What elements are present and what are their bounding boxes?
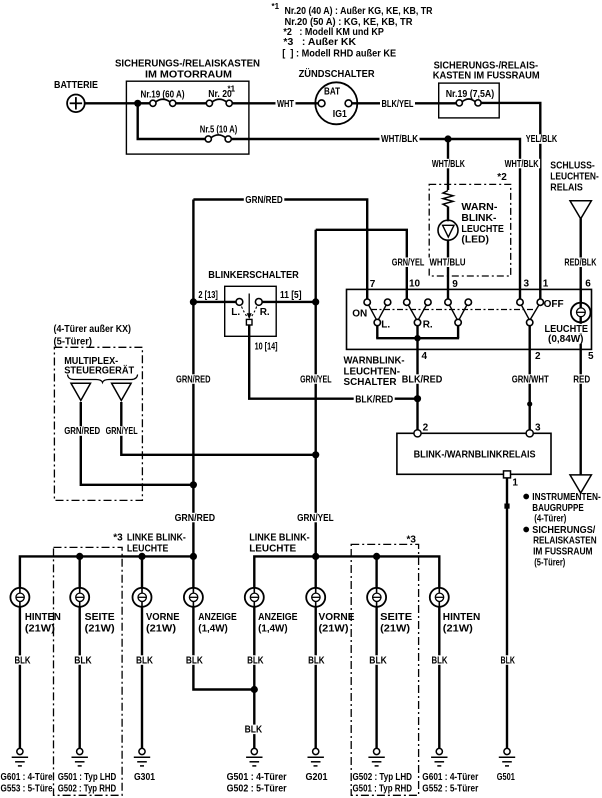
svg-text:G501 : Typ LHD: G501 : Typ LHD (58, 772, 116, 783)
svg-text:BLK: BLK (308, 655, 325, 666)
svg-text:SCHLUSS-: SCHLUSS- (550, 160, 595, 171)
wire GRN/YEL run from right riser to pin 10 (316, 230, 407, 299)
label WHT/BLU on pin 9 feed (428, 258, 467, 268)
svg-text:2: 2 (535, 351, 541, 362)
wire ignition IG1 to footwell fusebox (BLK/YEL) (352, 102, 457, 104)
svg-text:WARNBLINK-: WARNBLINK- (344, 355, 405, 366)
svg-text:6: 6 (585, 279, 591, 290)
wire turn-signal switch pin 11 to right riser (262, 301, 316, 303)
svg-text:G502 : 5-Türer: G502 : 5-Türer (227, 784, 287, 795)
svg-text:RELAISKASTEN: RELAISKASTEN (533, 536, 597, 547)
svg-text:BLK: BLK (186, 655, 204, 666)
svg-text:BLK/RED: BLK/RED (402, 374, 443, 385)
svg-text:1: 1 (543, 279, 549, 290)
svg-text:BLK: BLK (247, 655, 264, 666)
svg-text:IM FUSSRAUM: IM FUSSRAUM (533, 546, 593, 557)
svg-text:IM MOTORRAUM: IM MOTORRAUM (145, 70, 232, 81)
svg-text:BATTERIE: BATTERIE (54, 80, 98, 91)
svg-text:LINKE BLINK-: LINKE BLINK- (127, 532, 186, 543)
hazard switch pole 2 (pin10 R.) (404, 299, 410, 305)
svg-text:BLK: BLK (245, 725, 263, 736)
svg-text:G501 : 4-Türer: G501 : 4-Türer (227, 772, 287, 783)
svg-text:G601 : 4-Türer: G601 : 4-Türer (422, 772, 478, 783)
junction left bus / VORNE (138, 553, 145, 560)
svg-text:4: 4 (422, 351, 428, 362)
wire drop to SEITE lamp (right) (375, 556, 377, 587)
label GRN/RED on top run (244, 195, 284, 205)
svg-text:Nr.19 (7,5A): Nr.19 (7,5A) (446, 89, 495, 100)
label YEL/BLK (524, 134, 559, 144)
svg-text:VORNE: VORNE (146, 612, 180, 623)
svg-text:BLK: BLK (136, 655, 154, 666)
lamp SEITE right 21W (367, 588, 386, 607)
svg-text:RED/BLK: RED/BLK (564, 258, 597, 269)
wire ANZEIGE right lamp to ground (253, 607, 255, 749)
wire HINTEN left lamp to ground (19, 607, 21, 749)
svg-text:BAUGRUPPE: BAUGRUPPE (532, 503, 584, 514)
label GRN/WHT on pin 2 feed (510, 374, 550, 384)
svg-text:L.: L. (231, 307, 240, 318)
box *3 right (SEITE lamp option) dashed (351, 544, 418, 795)
wire flasher relay pin 1 down to ground G501 (506, 477, 508, 749)
svg-text:G502 : Typ LHD: G502 : Typ LHD (353, 772, 413, 783)
svg-text:ZÜNDSCHALTER: ZÜNDSCHALTER (299, 67, 376, 80)
wire RED hazard pin 5 down to arrow (580, 349, 582, 474)
hazard switch pole 3 (pin9) (445, 299, 451, 305)
label WHT (276, 99, 296, 109)
svg-text:RED: RED (573, 374, 590, 385)
bullet list destinations (523, 494, 529, 500)
svg-text:LINKE BLINK-: LINKE BLINK- (249, 532, 310, 543)
svg-text:ANZEIGE: ANZEIGE (258, 612, 298, 623)
lamp VORNE right 21W (306, 588, 325, 607)
ground G601/G552 (431, 748, 447, 766)
svg-text:BLK: BLK (74, 655, 92, 666)
box MULTIPLEX-STEUERGERAET dashed (54, 347, 142, 500)
battery symbol (67, 95, 85, 113)
svg-text:G501 : Typ RHD: G501 : Typ RHD (353, 784, 413, 795)
lamp VORNE left 21W (133, 588, 152, 607)
wire multiplex GRN/YEL output to right riser (121, 402, 315, 455)
fuse terminal circles Nr.5 (205, 136, 211, 142)
svg-text:WHT/BLK: WHT/BLK (505, 159, 540, 170)
svg-text:(21W): (21W) (25, 623, 55, 634)
arrow SCHLUSS-LEUCHTEN-RELAIS (570, 201, 591, 219)
label GRN/RED multiplex output (63, 426, 102, 436)
junction right bus / SEITE (373, 553, 380, 560)
svg-text:Nr.5 (10 A): Nr.5 (10 A) (200, 125, 238, 136)
svg-text:RELAIS: RELAIS (550, 183, 583, 194)
svg-text:*3 : Außer KK: *3 : Außer KK (283, 37, 356, 48)
junction hazard internal bus to pin 4 (414, 335, 420, 341)
wire VORNE right lamp to ground (315, 607, 317, 749)
splice on flasher relay pin 1 wire (504, 504, 509, 509)
label GRN/YEL lower riser (296, 513, 336, 523)
box BLINKERSCHALTER (225, 286, 277, 336)
wire battery to fusebox junction (85, 102, 138, 104)
svg-text:WARN-: WARN- (461, 202, 497, 213)
wire RED/BLK from tail-light relay arrow to pin 6 (580, 219, 582, 305)
wire multiplex GRN/RED output to left riser (81, 402, 194, 485)
svg-text:3: 3 (524, 279, 530, 290)
lamp HINTEN right 21W (430, 588, 449, 607)
box SICHERUNGS-/RELAISKASTEN IM FUSSRAUM (439, 83, 500, 118)
turn signal switch lever with arrow (248, 294, 250, 315)
svg-text:SICHERUNGS/: SICHERUNGS/ (532, 525, 595, 536)
svg-text:(LED): (LED) (461, 234, 489, 245)
svg-text:[ ] : Modell RHD außer KE: [ ] : Modell RHD außer KE (282, 49, 396, 60)
svg-text:(0,84W): (0,84W) (548, 334, 584, 345)
svg-text:GRN/YEL: GRN/YEL (300, 374, 332, 385)
multiplex arrow 1 (GRN/RED) (71, 383, 91, 400)
flasher relay pin 2 contact (414, 430, 421, 437)
fuse Nr.5 (10A) bump (211, 135, 226, 138)
wire hazard pin 4 down to flasher relay pin 2 (416, 349, 418, 430)
svg-text:SEITE: SEITE (85, 612, 115, 623)
svg-text:*3: *3 (113, 532, 123, 543)
ground G301 (134, 748, 150, 766)
fuse terminal circles Nr.19 7,5A (456, 100, 462, 106)
svg-text:BLK: BLK (369, 655, 387, 666)
svg-text:GRN/RED: GRN/RED (175, 513, 216, 524)
svg-text:BLK/RED: BLK/RED (355, 395, 393, 406)
wire GRN/RED top run from left riser to pin 7 (193, 200, 367, 300)
ground G502/G501 RHD (368, 748, 384, 766)
svg-text:(21W): (21W) (85, 623, 115, 634)
svg-text:G601 : 4-Türe: G601 : 4-Türe (1, 772, 53, 783)
wire drop to SEITE lamp (left) (78, 556, 80, 587)
lamp ANZEIGE left 1,4W (184, 588, 203, 607)
svg-text:11 [5]: 11 [5] (280, 290, 302, 301)
wire WHT/BLK drop to LED resistor (447, 139, 449, 190)
svg-text:(4-Türer außer KX): (4-Türer außer KX) (54, 324, 132, 335)
box SICHERUNGS-/RELAISKASTEN IM MOTORRAUM (126, 81, 248, 154)
wire fuse Nr.19 row to ignition switch (WHT) (141, 102, 150, 104)
box *3 left (SEITE lamp option) dashed (54, 547, 123, 795)
wire left lamp bus (20, 556, 194, 587)
ignition switch ZUENDSCHALTER circle (315, 82, 357, 124)
ground G501 relay (499, 748, 515, 766)
svg-text:G301: G301 (134, 772, 155, 783)
svg-text:10: 10 (409, 279, 421, 290)
svg-text:INSTRUMENTEN-: INSTRUMENTEN- (532, 492, 601, 503)
svg-text:BAT: BAT (324, 87, 340, 98)
svg-text:GRN/WHT: GRN/WHT (512, 374, 549, 385)
wire SEITE left lamp to ground (78, 607, 80, 749)
label WHT/BLK on horizontal (380, 134, 420, 144)
svg-text:WHT/BLU: WHT/BLU (430, 258, 466, 269)
wire VORNE left lamp to ground (141, 607, 143, 749)
svg-text:9: 9 (452, 279, 458, 290)
label WHT/BLK on pin 3 feed (503, 159, 540, 169)
svg-text:*3: *3 (407, 534, 417, 545)
label RED on pin 5 feed (572, 374, 592, 384)
svg-text:Nr.19 (60 A): Nr.19 (60 A) (141, 90, 185, 101)
svg-text:10 [14]: 10 [14] (255, 341, 278, 352)
svg-text:G552 : 5-Türer: G552 : 5-Türer (422, 784, 478, 795)
svg-text:ON: ON (352, 309, 367, 320)
svg-text:1: 1 (512, 477, 518, 488)
svg-text:BLINK-: BLINK- (461, 213, 496, 224)
svg-text:7: 7 (370, 279, 376, 290)
svg-text:(4-Türer): (4-Türer) (534, 513, 566, 524)
wire drop to VORNE lamp (left) (141, 556, 143, 587)
fuse Nr.19 (7,5A) bump (462, 99, 475, 102)
svg-text:L.: L. (381, 320, 390, 331)
wire YEL/BLK from footwell fuse to pin 1 of hazard switch (481, 103, 540, 299)
wire GRN/RED left riser down to ANZEIGE lamp (192, 200, 194, 588)
box WARN-BLINK-LEUCHTE (LED) dashed (429, 184, 511, 276)
fuse Nr.19 (60A) bump (156, 99, 171, 102)
svg-text:*1: *1 (272, 2, 280, 11)
label GRN/RED on left riser (175, 374, 213, 384)
label GRN/YEL on right riser (299, 374, 334, 384)
box WARNBLINK-LEUCHTEN-SCHALTER (347, 289, 592, 349)
box BLINK-/WARNBLINKRELAIS (397, 433, 551, 474)
svg-text:(21W): (21W) (443, 623, 473, 634)
svg-text:(1,4W): (1,4W) (258, 623, 288, 634)
hazard switch pole 1 (pin7 ON L.) (364, 299, 370, 305)
svg-text:STEUERGERÄT: STEUERGERÄT (64, 363, 134, 376)
wire SEITE right lamp to ground (375, 607, 377, 749)
label BLK/RED on horizontal link (354, 395, 395, 405)
svg-text:BLK: BLK (15, 655, 32, 666)
svg-text:(5-Türer): (5-Türer) (534, 558, 565, 569)
wire right lamp bus (254, 556, 439, 587)
svg-text:(21W): (21W) (380, 623, 410, 634)
svg-text:2 [13]: 2 [13] (198, 290, 218, 301)
svg-text:2: 2 (423, 423, 429, 434)
svg-text:VORNE: VORNE (319, 612, 355, 623)
svg-text:WHT: WHT (277, 99, 294, 110)
ground G501/G502 LHD (72, 748, 88, 766)
svg-text:LEUCHTEN-: LEUCHTEN- (550, 171, 599, 182)
label GRN/YEL multiplex output (104, 426, 139, 436)
junction left bus / GRN/RED riser (190, 553, 197, 560)
ground G501/G502 indicators (246, 748, 262, 766)
junction left riser / turn signal switch pin 2 (190, 298, 197, 305)
LED symbol (438, 220, 458, 240)
junction right bus / GRN/YEL riser (312, 553, 319, 560)
svg-text:(21W): (21W) (146, 623, 176, 634)
lamp ANZEIGE right 1,4W (245, 588, 264, 607)
fuse Nr.20 bump (212, 99, 227, 102)
svg-text:GRN/YEL: GRN/YEL (106, 426, 138, 437)
flasher relay pin 3 contact (526, 430, 533, 437)
hazard switch gang dash-dot line (371, 309, 534, 311)
BLK wire labels (13, 655, 32, 665)
svg-text:SEITE: SEITE (380, 612, 412, 623)
label GRN/YEL on pin 10 feed (390, 258, 426, 268)
wire resistor to LED (447, 207, 449, 222)
label BLK/YEL (380, 99, 415, 109)
svg-text:G201: G201 (306, 772, 328, 783)
wire GRN/YEL right riser down to VORNE lamp (315, 230, 317, 588)
svg-text:Nr.20 (40 A) : Außer KG, KE, K: Nr.20 (40 A) : Außer KG, KE, KB, TR (285, 6, 434, 17)
svg-text:KASTEN IM FUSSRAUM: KASTEN IM FUSSRAUM (433, 70, 540, 81)
svg-text:(5-Türer): (5-Türer) (54, 337, 93, 348)
hazard switch pilot lamp LEUCHTE 0,84W (571, 303, 591, 323)
lamp SEITE left 21W (70, 588, 89, 607)
svg-text:5: 5 (588, 351, 594, 362)
junction WHT/BLK to LED module (444, 135, 451, 142)
wire HINTEN right lamp to ground (438, 607, 440, 749)
flasher relay pin 1 contact (504, 471, 511, 478)
svg-text:BLK/YEL: BLK/YEL (382, 99, 414, 110)
wire junction drop to fuse Nr.5 row (138, 103, 206, 139)
fuse terminal circles Nr.19 60A (150, 100, 156, 106)
ground G201 (308, 748, 324, 766)
svg-text:LEUCHTE: LEUCHTE (249, 543, 296, 554)
hazard switch pole 4 (pin3 pin1 OFF) (517, 299, 523, 305)
wire BLK/RED from turn-signal switch pin 10 to hazard pin 4 line (249, 325, 417, 399)
junction left bus / SEITE (76, 553, 83, 560)
svg-text:BLINKERSCHALTER: BLINKERSCHALTER (208, 270, 299, 281)
svg-text:LEUCHTE: LEUCHTE (127, 544, 169, 555)
svg-text:(1,4W): (1,4W) (198, 623, 228, 634)
svg-text:R.: R. (423, 320, 433, 331)
multiplex arrow 2 (GRN/YEL) (112, 383, 132, 400)
svg-text:YEL/BLK: YEL/BLK (526, 134, 558, 145)
svg-text:GRN/YEL: GRN/YEL (392, 258, 425, 269)
svg-text:G553 : 5-Türe: G553 : 5-Türe (1, 784, 53, 795)
junction BLK/RED with hazard pin 4 wire (414, 395, 421, 402)
svg-text:GRN/RED: GRN/RED (176, 374, 211, 385)
svg-text:ANZEIGE: ANZEIGE (198, 612, 237, 623)
svg-text:*1: *1 (228, 85, 236, 94)
junction multiplex GRN/RED to left riser (190, 481, 197, 488)
arrow to instrument cluster / footwell box (570, 475, 591, 493)
lamp HINTEN left 21W (10, 588, 29, 607)
svg-text:SICHERUNGS-/RELAISKASTEN: SICHERUNGS-/RELAISKASTEN (115, 59, 260, 70)
svg-text:GRN/RED: GRN/RED (245, 195, 282, 206)
svg-text:LEUCHTEN-: LEUCHTEN- (344, 366, 401, 377)
svg-text:HINTEN: HINTEN (443, 612, 481, 623)
wire left riser to turn-signal switch pin 2 (193, 301, 236, 303)
svg-text:*2: *2 (497, 172, 507, 183)
svg-text:BLK: BLK (432, 655, 449, 666)
wire WHT/BLK from fuse Nr.5 to pin 3 of hazard switch (231, 139, 520, 299)
svg-text:(21W): (21W) (319, 623, 349, 634)
svg-text:GRN/YEL: GRN/YEL (297, 513, 334, 524)
svg-text:G501: G501 (497, 772, 515, 783)
label GRN/RED lower riser (173, 513, 217, 523)
hazard switch internal bus wires (376, 289, 581, 349)
svg-text:OFF: OFF (544, 299, 564, 310)
svg-text:WHT/BLK: WHT/BLK (432, 159, 466, 170)
junction right riser / turn signal switch pin 11 (312, 298, 319, 305)
label WHT/BLK on LED feed (430, 159, 466, 169)
wire GRN/WHT hazard pin 2 down to flasher relay pin 3 (529, 349, 531, 430)
wire WHT/BLU from LED to pin 9 (447, 240, 449, 299)
svg-text:IG1: IG1 (333, 109, 347, 120)
splice on GRN/WHT wire (527, 401, 532, 406)
label RED/BLK on pin 6 feed (563, 258, 598, 268)
svg-text:SCHALTER: SCHALTER (344, 377, 398, 388)
svg-text:BLK: BLK (501, 655, 516, 666)
svg-text:R.: R. (260, 307, 270, 318)
junction multiplex GRN/YEL to right riser (312, 451, 319, 458)
svg-text:GRN/RED: GRN/RED (64, 426, 100, 437)
wire ANZEIGE left lamp joins ANZEIGE right ground wire (193, 607, 254, 690)
turn signal switch contacts L and R (236, 299, 243, 306)
junction ANZEIGE ground wires (251, 686, 258, 693)
resistor of hazard warning LED (443, 191, 453, 207)
multiplex brace (68, 375, 138, 383)
label BLK/RED on pin 4 feed (400, 374, 444, 384)
BLK label on joined indicator ground (243, 725, 264, 735)
ground G601/G553 (12, 748, 28, 766)
junction battery feed in engine fusebox (134, 100, 141, 107)
svg-text:G502 : Typ RHD: G502 : Typ RHD (58, 784, 116, 795)
fuse terminal circles Nr.20 (206, 100, 212, 106)
svg-text:3: 3 (535, 423, 541, 434)
svg-text:HINTEN: HINTEN (25, 612, 61, 623)
svg-text:WHT/BLK: WHT/BLK (381, 134, 419, 145)
svg-text:BLINK-/WARNBLINKRELAIS: BLINK-/WARNBLINKRELAIS (414, 450, 536, 461)
